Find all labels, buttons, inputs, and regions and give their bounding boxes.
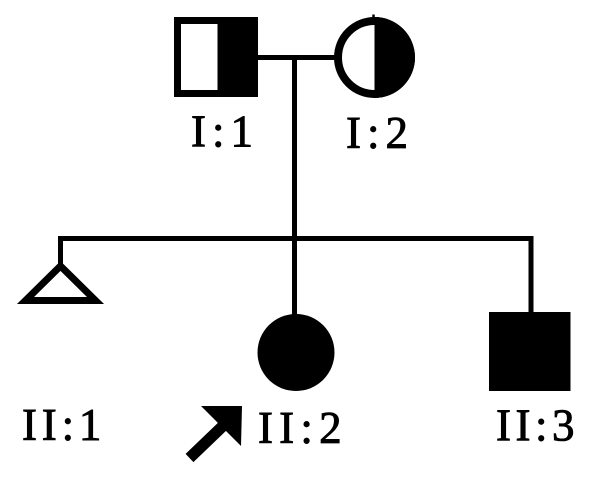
- svg-text:I:2: I:2: [346, 108, 414, 158]
- individual I:1 half-shaded square: [178, 17, 259, 97]
- wire drop to II:1: [58, 236, 63, 266]
- wire descent from couple line: [292, 58, 297, 242]
- svg-text:II:3: II:3: [496, 401, 579, 451]
- proband arrow: [190, 406, 243, 458]
- svg-text:II:2: II:2: [258, 403, 348, 453]
- wire drop to II:3: [529, 236, 534, 314]
- tick atop I:2 divider: [372, 15, 375, 23]
- individual II:3 filled square: [489, 312, 571, 391]
- wire drop to II:2: [292, 236, 297, 318]
- wire sibship line: [58, 236, 532, 241]
- svg-text:I:1: I:1: [191, 107, 259, 157]
- svg-text:II:1: II:1: [22, 400, 106, 450]
- individual II:1 open triangle: [26, 266, 96, 301]
- wire couple line I:1 to I:2: [257, 55, 335, 60]
- individual II:2 filled circle: [258, 314, 335, 391]
- individual I:2 half-shaded circle: [338, 17, 415, 98]
